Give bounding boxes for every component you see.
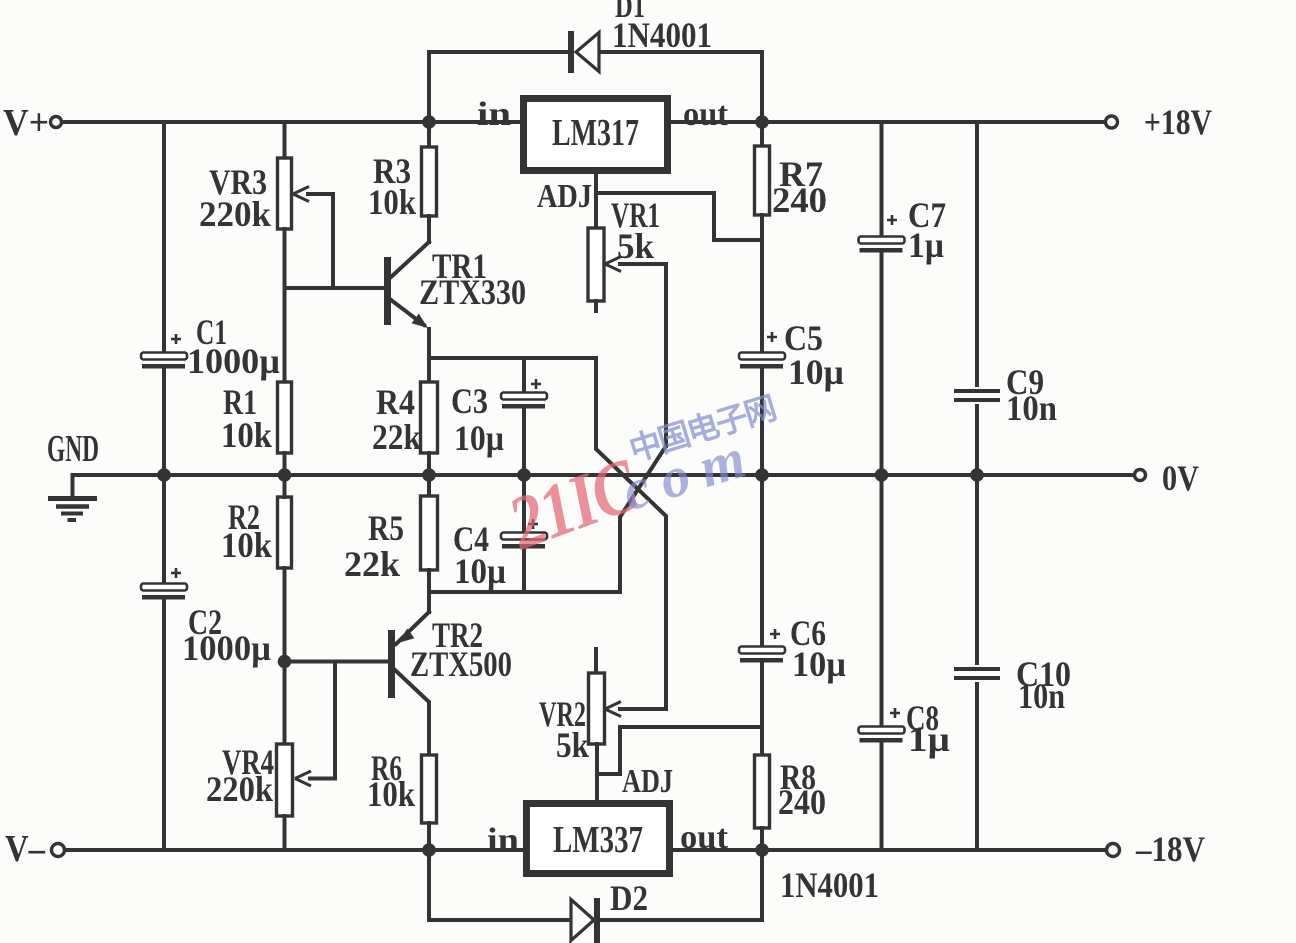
- wire D2 bottom left: [429, 918, 569, 922]
- node 0V/R1R2: [278, 468, 292, 482]
- wire GND drop: [71, 475, 75, 496]
- svg-text:240: 240: [772, 180, 827, 220]
- wire VR2 top stub: [594, 649, 598, 673]
- terminal +18V: [1106, 116, 1118, 128]
- svg-text:in: in: [477, 96, 511, 133]
- terminal V+: [51, 117, 62, 128]
- potentiometer VR2: [589, 673, 605, 744]
- C3 polarity +: [531, 379, 541, 389]
- C1 polarity +: [171, 334, 181, 344]
- svg-text:–18V: –18V: [1135, 829, 1205, 869]
- wire C3 top lead: [522, 358, 526, 391]
- wire V- rail: [64, 848, 523, 852]
- C7 polarity +: [887, 215, 897, 225]
- wire C6 top lead: [760, 475, 764, 645]
- VR3 wiper arrow: [293, 187, 309, 202]
- watermark chinese text: [623, 383, 780, 471]
- capacitor C3: [501, 393, 547, 400]
- wire TR1 emitter: [391, 300, 424, 325]
- potentiometer VR4: [277, 744, 293, 816]
- svg-text:LM337: LM337: [553, 819, 643, 861]
- C6 polarity +: [770, 629, 780, 639]
- resistor R3: [422, 147, 437, 216]
- svg-text:ZTX330: ZTX330: [419, 272, 526, 312]
- regulator U2 LM337: [527, 804, 670, 874]
- wire D2 right leg: [760, 850, 764, 920]
- svg-text:LM317: LM317: [552, 112, 639, 154]
- capacitor C2: [141, 584, 187, 591]
- C2 polarity +: [171, 568, 181, 578]
- wire C5 bottom lead: [760, 370, 764, 475]
- node 0V/C9C10: [970, 468, 984, 482]
- wire TR1 base: [285, 286, 385, 290]
- wire D1 top right: [600, 50, 762, 54]
- node 0V/C3C4: [517, 468, 531, 482]
- potentiometer VR1: [588, 228, 604, 301]
- TR1 emitter arrow: [412, 314, 428, 328]
- svg-text:5k: 5k: [617, 226, 654, 266]
- wire C4 bottom lead: [522, 550, 526, 592]
- resistor R2: [278, 497, 292, 568]
- wire LM317 ADJ lead: [594, 174, 598, 228]
- watermark com script: [615, 422, 765, 524]
- wire R4 top lead: [427, 358, 431, 382]
- wire TR1 collector: [391, 242, 429, 277]
- svg-text:V+: V+: [3, 102, 49, 144]
- svg-text:ADJ: ADJ: [622, 763, 673, 800]
- svg-text:10µ: 10µ: [454, 551, 506, 591]
- svg-text:out: out: [683, 96, 729, 133]
- wire R5 top lead: [427, 475, 431, 496]
- wire R3 top lead: [427, 122, 431, 147]
- capacitor C1: [141, 353, 187, 360]
- svg-text:22k: 22k: [344, 544, 400, 584]
- diode D1: [568, 31, 574, 73]
- resistor R4: [421, 382, 438, 453]
- wire VR4 wiper loop: [310, 662, 335, 779]
- wire LM337 ADJ lead: [595, 774, 599, 800]
- C5 polarity +: [767, 332, 777, 342]
- svg-text:10k: 10k: [221, 525, 272, 565]
- wire C10 bottom lead: [975, 684, 979, 850]
- wire VR4 top lead: [283, 662, 287, 745]
- wire C9 bottom lead: [975, 406, 979, 475]
- svg-text:10n: 10n: [1006, 388, 1057, 428]
- wire TR2 base: [285, 660, 389, 664]
- wire VR3 to R1: [283, 229, 287, 382]
- node LM337 out: [755, 843, 769, 857]
- wire C9 top lead: [975, 122, 979, 385]
- node 0V/C7C8: [875, 468, 889, 482]
- watermark 21IC red: [498, 442, 648, 567]
- wire D1 right leg: [760, 52, 764, 122]
- svg-text:in: in: [487, 822, 519, 859]
- capacitor C5: [739, 353, 785, 360]
- wire VR2 bottom lead: [595, 744, 599, 774]
- wire C1 bottom lead: [162, 370, 166, 475]
- wire TR2 collector: [395, 670, 429, 755]
- wire C4 top lead: [522, 475, 526, 531]
- svg-text:out: out: [680, 819, 729, 856]
- C8 polarity +: [890, 708, 900, 718]
- svg-text:220k: 220k: [199, 194, 271, 234]
- wire R4 bottom lead: [427, 453, 431, 475]
- wire C8 top lead: [880, 475, 884, 725]
- svg-text:1N4001: 1N4001: [612, 15, 712, 55]
- wire C2 bottom lead: [162, 601, 166, 850]
- svg-text:10k: 10k: [367, 774, 415, 814]
- terminal 0V: [1135, 470, 1146, 481]
- wire C8 bottom lead: [880, 744, 884, 850]
- wire VR1 wiper: [620, 264, 666, 446]
- resistor R7: [755, 146, 770, 215]
- node 0V/C5C6: [755, 468, 769, 482]
- svg-text:10µ: 10µ: [454, 418, 504, 458]
- capacitor C8: [859, 727, 905, 734]
- svg-text:R5: R5: [368, 508, 404, 548]
- wire VR4 bottom lead: [283, 816, 287, 850]
- regulator U1 LM317: [524, 99, 668, 171]
- svg-text:ADJ: ADJ: [537, 178, 592, 215]
- wire -18V rail: [673, 848, 1106, 852]
- wire R2 to TR2 base node: [283, 568, 287, 662]
- svg-text:10µ: 10µ: [792, 644, 846, 684]
- svg-text:1µ: 1µ: [908, 719, 950, 759]
- svg-text:10µ: 10µ: [788, 352, 844, 392]
- resistor R8: [755, 755, 770, 828]
- wire TR1 emitter row: [429, 356, 596, 360]
- wire R6 bottom lead: [427, 823, 431, 850]
- capacitor C4: [501, 533, 547, 540]
- wire R8 bottom lead: [760, 828, 764, 850]
- wire TR2 collector row: [429, 590, 620, 594]
- VR1 wiper arrow: [605, 257, 621, 272]
- wire ADJ to R7 bottom: [596, 193, 762, 240]
- wire C6 bottom lead: [760, 664, 764, 755]
- node TR2 base: [278, 655, 292, 669]
- resistor R5: [421, 496, 438, 570]
- wire D1 left leg: [427, 52, 431, 122]
- node V+/R3/D1: [422, 115, 436, 129]
- svg-text:1µ: 1µ: [908, 225, 944, 265]
- VR2 wiper arrow: [605, 702, 621, 717]
- wire TR1 emitter lead: [427, 329, 431, 358]
- wire C7 bottom lead: [880, 254, 884, 475]
- svg-text:5k: 5k: [556, 725, 589, 765]
- wire R5 bottom lead: [427, 570, 431, 592]
- wire R1 bottom lead: [283, 453, 287, 475]
- svg-text:+18V: +18V: [1144, 102, 1212, 142]
- svg-text:22k: 22k: [372, 417, 421, 457]
- transistor TR2 base bar: [388, 630, 395, 698]
- wire cross B (VR1 wiper to TR2 row): [620, 446, 666, 592]
- wire VR3 wiper loop: [308, 194, 333, 288]
- svg-text:10k: 10k: [221, 415, 272, 455]
- svg-text:V–: V–: [5, 828, 46, 870]
- node 0V/C1: [157, 468, 171, 482]
- svg-text:1000µ: 1000µ: [182, 628, 271, 668]
- svg-text:D2: D2: [610, 878, 648, 918]
- wire R7 bottom lead: [760, 215, 764, 351]
- TR2 emitter arrow: [398, 629, 414, 643]
- wire D2 left leg: [427, 850, 431, 920]
- potentiometer VR3: [278, 158, 292, 229]
- capacitor C10: [954, 667, 1000, 671]
- wire cross A (emitter row to VR2 wiper): [596, 358, 666, 709]
- wire VR2/ADJ bracket: [597, 727, 762, 774]
- wire R3 bottom lead: [427, 216, 431, 242]
- svg-text:C3: C3: [451, 381, 488, 421]
- wire VR1 bottom stub: [594, 301, 598, 311]
- wire D1 top left: [429, 50, 566, 54]
- svg-text:1000µ: 1000µ: [187, 341, 280, 381]
- resistor R6: [422, 755, 437, 823]
- capacitor C6: [739, 647, 785, 654]
- wire V+ rail: [62, 120, 520, 124]
- capacitor C7: [859, 237, 905, 244]
- VR4 wiper arrow: [295, 771, 311, 786]
- ground: [48, 496, 97, 501]
- diode D2: [571, 900, 594, 941]
- node V-/R6/D2: [422, 843, 436, 857]
- capacitor C9: [954, 389, 1000, 393]
- wire C2 top lead: [162, 475, 166, 582]
- wire C10 top lead: [975, 475, 979, 663]
- wire TR2 emitter: [396, 612, 429, 644]
- node 0V/R4R5: [422, 468, 436, 482]
- wire TR2 emitter lead: [427, 592, 431, 612]
- svg-text:0V: 0V: [1162, 458, 1199, 498]
- C4 polarity +: [528, 519, 538, 529]
- wire R7 top lead: [760, 122, 764, 146]
- terminal -18V: [1107, 844, 1120, 857]
- svg-text:GND: GND: [47, 428, 99, 470]
- svg-text:10n: 10n: [1018, 676, 1065, 716]
- terminal V-: [52, 844, 65, 857]
- svg-text:10k: 10k: [368, 182, 416, 222]
- svg-text:240: 240: [778, 782, 826, 822]
- svg-text:1N4001: 1N4001: [780, 865, 879, 905]
- wire +18V rail: [671, 120, 1105, 124]
- wire C3 bottom lead: [522, 410, 526, 475]
- resistor R1: [278, 382, 292, 453]
- transistor TR1 base bar: [384, 257, 391, 325]
- svg-text:R4: R4: [376, 382, 415, 422]
- wire C7 top lead: [880, 122, 884, 235]
- wire R2 top lead: [283, 475, 287, 497]
- wire C1 top lead: [162, 122, 166, 351]
- svg-text:ZTX500: ZTX500: [410, 644, 512, 684]
- svg-text:220k: 220k: [206, 769, 273, 809]
- node LM317 out: [755, 115, 769, 129]
- wire 0V rail: [73, 473, 1135, 477]
- wire VR3 top lead: [283, 122, 287, 158]
- wire D2 bottom right: [600, 918, 762, 922]
